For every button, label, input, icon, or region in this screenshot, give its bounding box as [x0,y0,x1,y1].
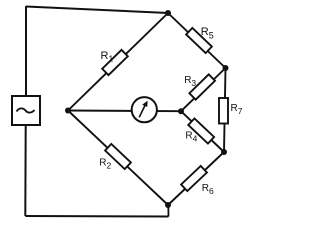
resistor R3 [189,74,215,99]
node F [165,202,171,208]
resistor R4 [188,118,214,143]
wire branch R5 (node A to node D) [168,13,226,68]
svg-text:R7: R7 [231,103,243,116]
wire left rail upper [25,6,27,96]
wire detector (node B to node C) [68,110,181,113]
wire branch R7 (node D to node E) [224,68,226,152]
wire branch R4 (node C to node E) [181,111,224,152]
galvanometer G [132,97,157,122]
resistor R7 [219,98,228,124]
wire top rail [26,7,168,14]
node E [221,149,227,155]
node A [165,10,171,16]
resistor R1 [102,50,128,75]
node C [178,108,184,114]
svg-text:R3: R3 [184,75,196,88]
resistor R5 [186,28,212,53]
wire bottom stub to node F [167,205,169,217]
wire branch R3 (node C to node D) [181,68,226,111]
node D [223,65,229,71]
wire branch R2 (node B to node F) [68,111,168,206]
wire bottom rail [25,215,168,218]
wire branch R6 (node F to node E) [168,152,224,205]
node B [65,108,71,114]
AC source V1 [12,96,40,125]
svg-text:R1: R1 [101,50,114,64]
wire branch R1 (node B to node A) [68,13,168,111]
wire left rail lower [24,125,26,216]
resistor R6 [181,166,207,191]
resistor R2 [105,144,131,169]
svg-text:R2: R2 [99,158,111,171]
svg-text:R6: R6 [202,183,214,196]
